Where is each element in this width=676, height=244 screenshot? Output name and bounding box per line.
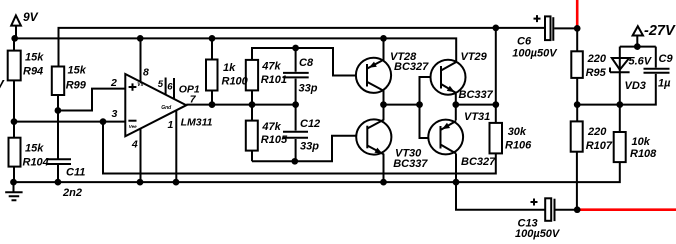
svg-text:R107: R107 (586, 140, 613, 152)
svg-text:8: 8 (143, 66, 149, 78)
transistor Q VT28 (356, 58, 391, 93)
wire pin 1 (175, 111, 177, 183)
svg-text:47k: 47k (261, 60, 281, 72)
svg-text:C12: C12 (300, 118, 320, 130)
wire C13 right (556, 209, 578, 211)
wire R107 bottom to C13 node (576, 152, 578, 210)
wire node to R106 (495, 28, 497, 123)
svg-text:15k: 15k (25, 143, 44, 155)
wire R99 bottom and pin2 jog (58, 89, 126, 111)
capacitor C6 (545, 16, 551, 40)
svg-text:33p: 33p (300, 140, 319, 152)
power symbol -27V (633, 26, 643, 35)
wire output pin 7 (186, 104, 295, 106)
capacitor C9 (644, 69, 670, 73)
wire C8 leads (295, 48, 297, 105)
capacitor C8 (283, 73, 309, 78)
resistor R106 (490, 123, 503, 153)
svg-text:BC327: BC327 (461, 156, 496, 168)
resistor R99 (52, 67, 64, 96)
svg-text:30k: 30k (508, 126, 527, 138)
svg-text:-27V: -27V (644, 23, 676, 39)
svg-text:R100: R100 (222, 75, 249, 87)
svg-text:220: 220 (587, 53, 607, 65)
wire inverting input line (14, 121, 126, 123)
transistor Q VT29 (431, 60, 466, 95)
resistor R101 (246, 60, 258, 91)
wire C11 leads (57, 111, 59, 183)
svg-text:15k: 15k (68, 65, 87, 77)
svg-text:1k: 1k (223, 62, 236, 74)
svg-text:Gnd: Gnd (161, 105, 172, 111)
wire R105 C12 bottom to VT30 base (252, 136, 368, 162)
svg-text:R94: R94 (23, 65, 43, 77)
wire ground rail (14, 162, 620, 182)
wire mid node (384, 104, 420, 106)
svg-text:VT29: VT29 (461, 51, 488, 63)
wire C13 branch (456, 182, 545, 210)
wire feedback line to R106 (103, 122, 496, 174)
svg-text:1µ: 1µ (658, 78, 671, 90)
svg-text:C8: C8 (299, 57, 314, 69)
svg-text:R106: R106 (505, 140, 532, 152)
svg-text:100µ50V: 100µ50V (512, 47, 558, 59)
svg-text:C11: C11 (66, 166, 85, 178)
wire C6 right to junction (554, 27, 577, 29)
svg-text:47k: 47k (261, 121, 281, 133)
wire emitters node (456, 104, 496, 106)
wire 9V drop (15, 26, 17, 39)
svg-text:10k: 10k (632, 136, 651, 148)
svg-text:5.6V: 5.6V (629, 56, 653, 68)
wire R108 top (619, 105, 621, 132)
wire R100 leads (211, 38, 213, 104)
svg-text:1: 1 (168, 119, 174, 131)
resistor R104 (9, 138, 21, 167)
wire R105 leads (251, 105, 253, 162)
resistor R105 (246, 121, 258, 151)
resistor R108 (614, 132, 626, 162)
svg-text:Vs: Vs (137, 82, 143, 88)
svg-text:R95: R95 (586, 67, 607, 79)
svg-text:9V: 9V (23, 10, 39, 24)
resistor R107 (571, 121, 583, 151)
svg-text:15k: 15k (25, 51, 44, 63)
svg-text:OP1: OP1 (179, 83, 200, 95)
svg-text:BC327: BC327 (394, 61, 429, 73)
resistor R100 (206, 60, 218, 91)
svg-text:C6: C6 (517, 36, 532, 48)
wire VT28 emitter collector (383, 38, 385, 104)
wire R101 bottom (251, 90, 253, 104)
wire 9V rail (15, 38, 457, 62)
wire VT29 emitter (455, 94, 457, 105)
wire R95 leads (576, 28, 578, 121)
wire pin 5 stub (165, 78, 167, 95)
wire pin 8 (140, 38, 142, 82)
resistor R95 (571, 51, 583, 78)
svg-text:VD3: VD3 (625, 80, 646, 92)
wire VT31 emitter collector (455, 105, 457, 183)
wire VD3 C9 bottom row (577, 74, 656, 105)
transistor Q VT31 (428, 120, 463, 155)
transistor Q VT30 (356, 119, 391, 154)
svg-text:5: 5 (158, 79, 164, 90)
svg-text:3: 3 (112, 108, 118, 120)
wire C12 leads (295, 105, 297, 162)
wire top rail to C6 (59, 28, 546, 67)
wire R101 top rail to VT28 base (252, 48, 367, 76)
red output line bottom (578, 208, 676, 211)
svg-text:R108: R108 (630, 148, 657, 160)
wire -27V drop (636, 36, 638, 47)
svg-text:6: 6 (167, 81, 173, 92)
resistor R94 (8, 51, 21, 81)
svg-text:33p: 33p (299, 83, 318, 95)
wire pin 4 (140, 129, 142, 182)
svg-text:100µ50V: 100µ50V (515, 228, 561, 240)
wire R104 leads (13, 122, 15, 183)
svg-text:R101: R101 (261, 74, 287, 86)
capacitor C13 (545, 198, 551, 221)
wire VD3 C9 box top (620, 47, 656, 68)
capacitor C12 (283, 132, 308, 138)
power symbol 9V (11, 15, 21, 25)
svg-text:BC337: BC337 (459, 89, 494, 101)
red supply line top (576, 0, 579, 27)
svg-text:LM311: LM311 (181, 117, 213, 129)
op-amp U1 LM311 (125, 74, 186, 136)
svg-text:C9: C9 (659, 53, 674, 65)
diode VD3 zener (619, 47, 621, 105)
svg-text:VT31: VT31 (464, 111, 490, 123)
svg-text:2n2: 2n2 (62, 187, 82, 199)
svg-text:R104: R104 (23, 157, 49, 169)
svg-text:Vee: Vee (129, 124, 137, 129)
svg-text:2: 2 (110, 77, 117, 89)
ground (5, 182, 22, 200)
wire pin 6 stub (173, 78, 175, 99)
wire bases column VT29 VT31 (420, 77, 442, 138)
wire R94 leads (13, 38, 15, 121)
capacitor C11 (46, 159, 71, 164)
svg-text:4: 4 (131, 139, 138, 151)
wire VT30 collector emitter (383, 105, 385, 183)
svg-text:R105: R105 (261, 134, 288, 146)
svg-text:220: 220 (587, 126, 607, 138)
svg-text:R99: R99 (66, 79, 87, 91)
svg-text:BC337: BC337 (393, 158, 428, 170)
